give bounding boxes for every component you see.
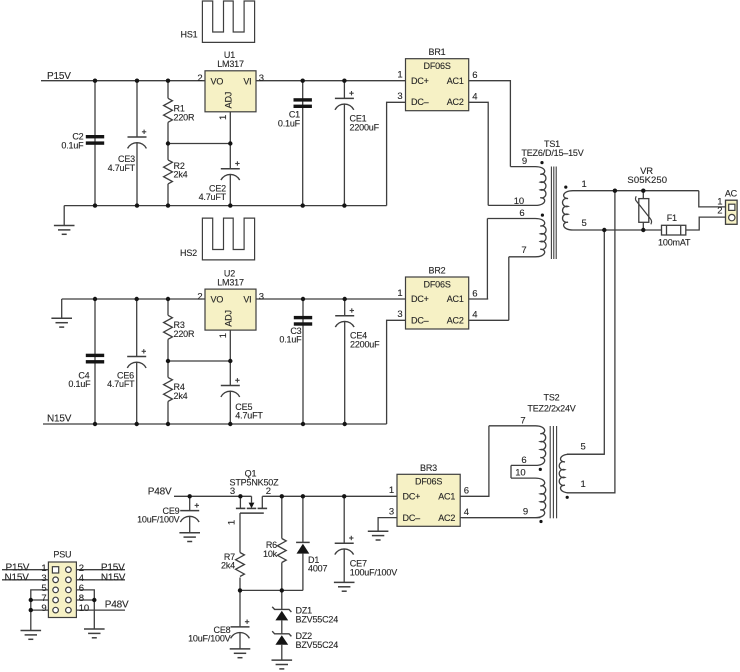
svg-text:1: 1	[218, 115, 229, 120]
svg-text:4: 4	[472, 91, 477, 102]
svg-text:2: 2	[266, 486, 271, 497]
svg-text:100uF/100V: 100uF/100V	[350, 567, 397, 577]
svg-text:BZV55C24: BZV55C24	[296, 614, 339, 624]
svg-text:6: 6	[519, 208, 524, 219]
svg-text:HS2: HS2	[180, 248, 197, 258]
svg-text:P48V: P48V	[148, 487, 172, 498]
svg-text:2: 2	[197, 73, 202, 84]
svg-text:BZV55C24: BZV55C24	[296, 640, 339, 650]
svg-text:10k: 10k	[263, 549, 278, 559]
svg-text:10: 10	[79, 603, 89, 614]
svg-text:BR3: BR3	[420, 463, 437, 473]
svg-text:2: 2	[717, 206, 722, 217]
svg-text:TS2: TS2	[544, 393, 560, 403]
svg-text:0.1uF: 0.1uF	[279, 335, 302, 345]
svg-text:ADJ: ADJ	[223, 310, 233, 326]
svg-text:S05K250: S05K250	[627, 175, 667, 186]
svg-text:VO: VO	[211, 295, 224, 305]
svg-text:7: 7	[521, 245, 526, 256]
svg-text:AC2: AC2	[447, 316, 464, 326]
svg-text:1: 1	[582, 179, 587, 190]
svg-text:4007: 4007	[308, 564, 327, 574]
svg-text:DC+: DC+	[411, 294, 429, 304]
svg-text:3: 3	[259, 292, 264, 303]
svg-text:4.7uFT: 4.7uFT	[199, 192, 227, 202]
svg-text:4.7uFT: 4.7uFT	[235, 411, 263, 421]
svg-text:0.1uF: 0.1uF	[61, 140, 84, 150]
svg-text:TEZ2/2x24V: TEZ2/2x24V	[527, 403, 575, 413]
svg-text:10: 10	[515, 468, 525, 479]
svg-text:2: 2	[197, 292, 202, 303]
svg-text:0.1uF: 0.1uF	[68, 379, 91, 389]
svg-text:1: 1	[581, 479, 586, 490]
svg-text:220R: 220R	[174, 112, 195, 122]
svg-text:6: 6	[472, 288, 477, 299]
svg-text:1: 1	[226, 520, 237, 525]
svg-text:ADJ: ADJ	[223, 92, 233, 108]
svg-text:N15V: N15V	[47, 413, 72, 424]
svg-text:6: 6	[472, 70, 477, 81]
svg-text:DF06S: DF06S	[424, 61, 451, 71]
svg-text:4.7uFT: 4.7uFT	[108, 163, 136, 173]
svg-text:2k4: 2k4	[174, 391, 188, 401]
svg-text:DF06S: DF06S	[415, 477, 442, 487]
svg-text:10uF/100V: 10uF/100V	[137, 515, 180, 525]
svg-text:2200uF: 2200uF	[350, 340, 380, 350]
svg-text:DC+: DC+	[403, 492, 421, 502]
svg-text:0.1uF: 0.1uF	[278, 119, 301, 129]
svg-text:BR2: BR2	[429, 266, 446, 276]
svg-text:7: 7	[520, 416, 525, 427]
svg-text:220R: 220R	[174, 329, 195, 339]
svg-text:2k4: 2k4	[221, 561, 235, 571]
svg-text:TEZ6/D/15–15V: TEZ6/D/15–15V	[521, 148, 583, 158]
svg-text:DC+: DC+	[411, 76, 429, 86]
svg-text:5: 5	[581, 441, 586, 452]
svg-text:1: 1	[218, 333, 229, 338]
svg-text:N15V: N15V	[5, 573, 30, 584]
svg-text:9: 9	[41, 603, 46, 614]
svg-text:P48V: P48V	[105, 599, 129, 610]
svg-text:VO: VO	[211, 76, 224, 86]
svg-text:3: 3	[389, 506, 394, 517]
svg-text:10: 10	[514, 196, 524, 207]
svg-text:2k4: 2k4	[174, 170, 188, 180]
svg-text:AC2: AC2	[438, 513, 455, 523]
svg-text:6: 6	[521, 455, 526, 466]
svg-text:3: 3	[397, 309, 402, 320]
svg-text:9: 9	[522, 156, 527, 167]
svg-text:AC1: AC1	[447, 294, 464, 304]
svg-text:LM317: LM317	[217, 59, 244, 69]
svg-text:F1: F1	[667, 213, 677, 223]
svg-text:1: 1	[389, 485, 394, 496]
svg-text:100mAT: 100mAT	[658, 238, 691, 248]
svg-text:4: 4	[472, 310, 477, 321]
svg-text:AC2: AC2	[447, 97, 464, 107]
svg-text:DC–: DC–	[403, 513, 421, 523]
svg-text:LM317: LM317	[217, 277, 244, 287]
svg-text:AC1: AC1	[447, 76, 464, 86]
svg-text:DC–: DC–	[411, 97, 429, 107]
svg-text:AC1: AC1	[438, 492, 455, 502]
svg-text:BR1: BR1	[429, 47, 446, 57]
svg-text:1: 1	[397, 70, 402, 81]
svg-text:2200uF: 2200uF	[350, 122, 380, 132]
svg-text:6: 6	[464, 486, 469, 497]
svg-text:3: 3	[230, 486, 235, 497]
svg-text:DC–: DC–	[411, 316, 429, 326]
svg-text:3: 3	[259, 73, 264, 84]
svg-text:4: 4	[464, 507, 469, 518]
svg-text:1: 1	[397, 288, 402, 299]
svg-text:DF06S: DF06S	[424, 279, 451, 289]
svg-text:PSU: PSU	[53, 550, 71, 560]
svg-text:HS1: HS1	[181, 30, 198, 40]
svg-text:3: 3	[397, 91, 402, 102]
svg-text:5: 5	[582, 218, 587, 229]
svg-text:4.7uFT: 4.7uFT	[107, 379, 135, 389]
svg-text:10uF/100V: 10uF/100V	[188, 634, 231, 644]
svg-text:9: 9	[523, 507, 528, 518]
svg-text:VI: VI	[243, 295, 251, 305]
svg-text:VI: VI	[243, 76, 251, 86]
svg-text:N15V: N15V	[101, 573, 126, 584]
svg-text:AC: AC	[725, 188, 738, 198]
svg-text:STP5NK50Z: STP5NK50Z	[230, 477, 280, 487]
